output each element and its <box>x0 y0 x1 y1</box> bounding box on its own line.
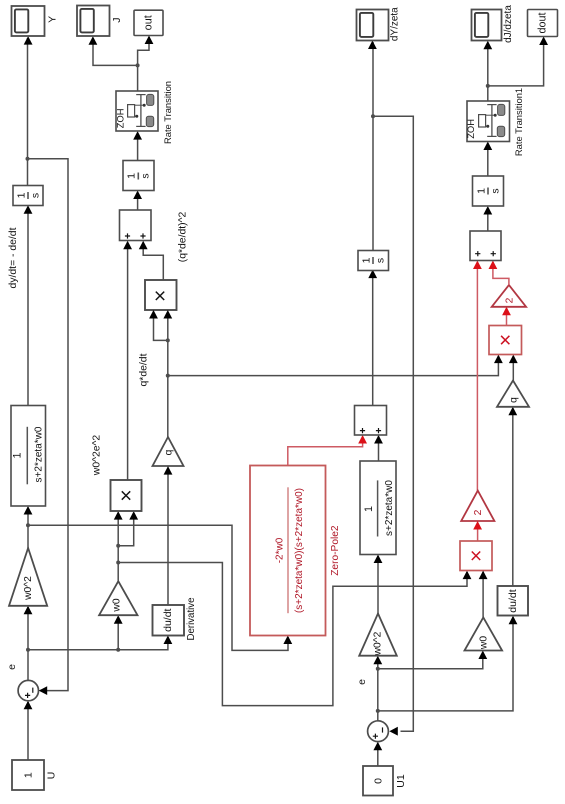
node y feedback <box>26 157 30 161</box>
svg-text:1: 1 <box>126 173 138 179</box>
node w0^2e branch <box>26 523 30 527</box>
svg-text:s+2*zeta*w0: s+2*zeta*w0 <box>33 426 44 482</box>
wire q2 to red product <box>512 356 514 380</box>
constant U1 (value 0) <box>363 766 393 796</box>
wire feedback dY <box>373 116 413 731</box>
wire red product2 to gain <box>477 523 479 542</box>
product w0^2e^2 <box>111 480 142 511</box>
node e2 to w02 <box>376 667 380 671</box>
node J branch <box>136 63 140 67</box>
svg-text:0: 0 <box>372 778 384 784</box>
wire w0e up <box>117 546 119 581</box>
gain w0^2 <box>9 548 47 606</box>
wire gain2 to Sum4 <box>493 262 509 285</box>
transfer function 1/(s+2*zeta*w0) <box>11 406 46 507</box>
svg-text:s: s <box>374 258 386 263</box>
svg-text:w0^2: w0^2 <box>373 631 384 656</box>
svg-text:Rate Transition1: Rate Transition1 <box>513 88 524 156</box>
zero-pole Zero-Pole2 <box>250 466 326 636</box>
svg-text:q*de/dt: q*de/dt <box>138 353 149 386</box>
svg-text:dJ/dzeta: dJ/dzeta <box>503 5 514 43</box>
svg-text:du/dt: du/dt <box>162 608 174 631</box>
constant U (value 1) <box>12 760 44 790</box>
wire de/dt to q <box>167 468 169 605</box>
wire e to w0 and du-dt <box>28 637 168 650</box>
node e to w0 <box>116 648 120 652</box>
wire to dout <box>488 38 544 86</box>
svg-text:J: J <box>111 17 123 22</box>
wire TF1 to Integrator <box>27 207 29 406</box>
svg-text:U1: U1 <box>395 774 407 788</box>
scope Y <box>12 6 45 36</box>
svg-text:du/dt: du/dt <box>507 589 519 612</box>
product (q*de/dt)^2 <box>145 280 177 310</box>
scope J <box>77 6 110 37</box>
sum Sum1 (+ +) <box>120 210 152 241</box>
svg-text:s: s <box>140 173 152 178</box>
wire Sum3 to Integrator2 <box>372 271 374 405</box>
wire Zero-Pole2 to Sum3 red <box>288 437 363 466</box>
wire red to gain 2 <box>506 308 508 325</box>
wire e2 up <box>377 657 379 721</box>
svg-text:1: 1 <box>15 192 27 198</box>
derivative du/dt <box>153 605 185 636</box>
wire to Scope J <box>93 38 138 65</box>
node w0e split <box>116 544 120 548</box>
node dY feedback <box>371 114 375 118</box>
svg-text:dy/dt= - de/dt: dy/dt= - de/dt <box>8 227 19 288</box>
wire U to Sum <box>27 702 29 760</box>
svg-text:2: 2 <box>505 297 516 303</box>
svg-text:out: out <box>143 15 155 30</box>
rate transition1 ZOH <box>467 101 510 142</box>
gain w0^2 second <box>359 614 397 656</box>
outport dout <box>528 10 558 37</box>
svg-text:s: s <box>29 193 41 198</box>
integrator2 1/s <box>358 251 389 271</box>
node dJ branch <box>486 84 490 88</box>
derivative du/dt second <box>498 586 529 616</box>
wire dY to scope <box>372 42 374 251</box>
svg-text:ZOH: ZOH <box>466 119 476 139</box>
node q*de/dt branch <box>166 374 170 378</box>
node qde split <box>166 338 170 342</box>
sum Sum2 <box>368 721 389 742</box>
wire de2 to q2 <box>512 408 514 586</box>
wire w0^2e to Transfer Fcn <box>27 508 29 549</box>
integrator3 1/s <box>473 176 504 206</box>
svg-text:ZOH: ZOH <box>115 109 125 129</box>
wire to Rate Transition1 <box>487 143 489 176</box>
scope dJ/dzeta <box>472 10 502 41</box>
wire y to Scope Y <box>27 38 29 185</box>
wire RT up <box>137 65 139 91</box>
wire red2 to Sum4 left <box>476 262 478 491</box>
integrator 1/s <box>13 186 43 206</box>
wire TF2 to Sum3 <box>378 437 380 462</box>
svg-text:dY/zeta: dY/zeta <box>390 7 401 41</box>
svg-text:1: 1 <box>475 188 487 194</box>
svg-text:1: 1 <box>22 772 34 778</box>
wire to TF2 <box>377 556 379 614</box>
svg-text:s: s <box>489 188 501 193</box>
svg-text:w0^2e^2: w0^2e^2 <box>92 435 103 477</box>
outport out <box>134 10 163 35</box>
svg-text:-2*w0: -2*w0 <box>274 537 285 563</box>
wire to Rate Transition <box>137 133 139 161</box>
svg-text:Derivative: Derivative <box>186 597 197 640</box>
svg-text:(s+2*zeta*w0)(s+2*zeta*w0): (s+2*zeta*w0)(s+2*zeta*w0) <box>294 488 305 613</box>
wire e2 to w02 <box>378 652 483 669</box>
svg-text:Rate Transition: Rate Transition <box>162 81 173 144</box>
node w0e branch <box>116 561 120 565</box>
gain w0 <box>99 581 137 615</box>
svg-text:q: q <box>509 397 520 403</box>
gain 2 red second <box>461 491 494 521</box>
product red 1 <box>489 326 522 355</box>
svg-text:2: 2 <box>473 509 484 515</box>
svg-text:dout: dout <box>537 12 549 33</box>
wire q*de/dt to Product2 <box>168 356 499 376</box>
scope dY/zeta <box>357 10 389 41</box>
gain 2 red first <box>492 285 526 307</box>
gain q <box>153 437 184 466</box>
node e2 to du/dt2 <box>376 709 380 713</box>
svg-text:1: 1 <box>363 506 375 512</box>
svg-text:U: U <box>45 772 57 780</box>
sum Sum3 (+ +) <box>355 406 387 436</box>
wire w02 to red product right <box>482 572 484 617</box>
svg-text:Zero-Pole2: Zero-Pole2 <box>330 525 341 576</box>
svg-text:(q*de/dt)^2: (q*de/dt)^2 <box>177 212 188 263</box>
sum Sum4 (+ +) <box>470 231 501 261</box>
wire e from Sum up to w0^2 <box>27 607 29 680</box>
wire w0^2e to Zero-Pole2 <box>28 525 288 650</box>
sum Sum <box>18 680 38 700</box>
wire e^2 to Sum1 left <box>127 242 129 480</box>
gain w0 second <box>465 617 503 650</box>
rate transition ZOH <box>116 91 158 131</box>
wire e2 to du/dt2 <box>378 617 513 711</box>
wire w0e jog to product <box>118 513 134 546</box>
integrator1 1/s <box>123 161 154 191</box>
node e branch <box>26 648 30 652</box>
wire to out <box>138 37 149 65</box>
svg-text:e: e <box>356 679 368 685</box>
product red 2 <box>460 541 492 571</box>
svg-text:w0: w0 <box>479 636 490 650</box>
gain q second <box>497 381 529 407</box>
wire RT1 up <box>487 86 489 101</box>
svg-text:e: e <box>6 664 18 670</box>
svg-text:w0: w0 <box>112 598 123 612</box>
svg-text:q: q <box>164 449 175 455</box>
svg-text:s+2*zeta*w0: s+2*zeta*w0 <box>384 480 395 536</box>
wire prod to Sum1 right <box>143 242 163 280</box>
transfer function2 1/(s+2*zeta*w0) <box>360 461 396 555</box>
wire qde left jog <box>154 312 168 341</box>
wire Sum4 to Integrator3 <box>487 208 489 232</box>
svg-text:w0^2: w0^2 <box>23 576 34 601</box>
wire w0e to Product1 red <box>118 563 467 706</box>
wire U1 to Sum2 <box>377 743 379 766</box>
svg-text:Y: Y <box>46 16 58 23</box>
wire Sum1 to Integrator1 <box>137 192 139 210</box>
svg-text:1: 1 <box>11 452 23 458</box>
wire to scope dJ <box>487 42 489 86</box>
wire feedback dy <box>28 159 69 691</box>
wire q*de/dt main <box>167 312 169 437</box>
svg-text:1: 1 <box>360 257 372 263</box>
